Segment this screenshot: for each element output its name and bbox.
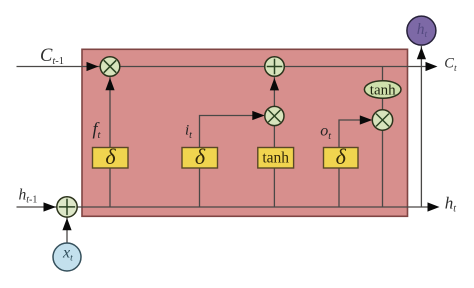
arrowhead: into plus node on C line	[270, 78, 279, 90]
input node x_t	[53, 243, 81, 271]
wire: cell-state C line	[17, 66, 429, 68]
tanh ellipse on cell-state branch	[364, 81, 401, 99]
arrowhead: x_t into plus node	[62, 218, 71, 230]
arrowhead: into h_t output circle	[417, 47, 426, 59]
sigma gate box i	[182, 144, 218, 169]
LSTM cell body	[82, 49, 408, 216]
multiply node input x candidate	[265, 106, 284, 125]
arrowhead: C_t output	[426, 62, 438, 71]
arrowhead: h_t output	[428, 202, 440, 211]
arrowhead: forget gate into multiply node	[105, 78, 114, 90]
arrowhead: input gate into multiply node	[252, 111, 264, 120]
svg-text:tanh: tanh	[262, 150, 289, 167]
wire: hidden-state h line	[17, 206, 430, 208]
wire: C line down to tanh ellipse	[382, 67, 384, 82]
arrowhead: output gate into multiply node	[360, 115, 373, 124]
sigma gate box f	[93, 144, 129, 169]
svg-text:Ct: Ct	[444, 55, 457, 74]
wire: tanh ellipse to multiply node	[382, 98, 384, 111]
tanh gate box	[258, 148, 294, 169]
wire: multiply node down to h line	[382, 129, 384, 207]
wire: x_t up to plus node	[66, 218, 68, 244]
multiply node output gate	[372, 110, 392, 130]
arrowhead: C_t-1 into multiply node	[87, 62, 99, 71]
wire: input gate elbow	[200, 116, 254, 208]
svg-text:δ: δ	[336, 144, 347, 169]
svg-text:δ: δ	[195, 144, 206, 169]
svg-text:Ct-1: Ct-1	[40, 46, 64, 67]
svg-text:δ: δ	[105, 144, 116, 169]
wire: forget gate vertical	[109, 77, 111, 207]
svg-text:ht-1: ht-1	[19, 187, 38, 206]
multiply node on C line (forget)	[100, 57, 120, 77]
wire: h line up to h_t output circle	[420, 46, 422, 207]
plus node on h line	[57, 197, 77, 217]
wire: candidate tanh vertical	[273, 125, 275, 207]
output node h_t	[407, 16, 436, 45]
svg-text:tanh: tanh	[370, 82, 396, 98]
wire: output gate elbow	[339, 120, 361, 207]
svg-text:ht: ht	[445, 193, 457, 214]
wire: multiply node up to plus node	[273, 77, 275, 107]
plus node on C line	[265, 57, 285, 77]
sigma gate box o	[324, 144, 359, 169]
arrowhead: h_t-1 into plus node	[44, 202, 57, 211]
